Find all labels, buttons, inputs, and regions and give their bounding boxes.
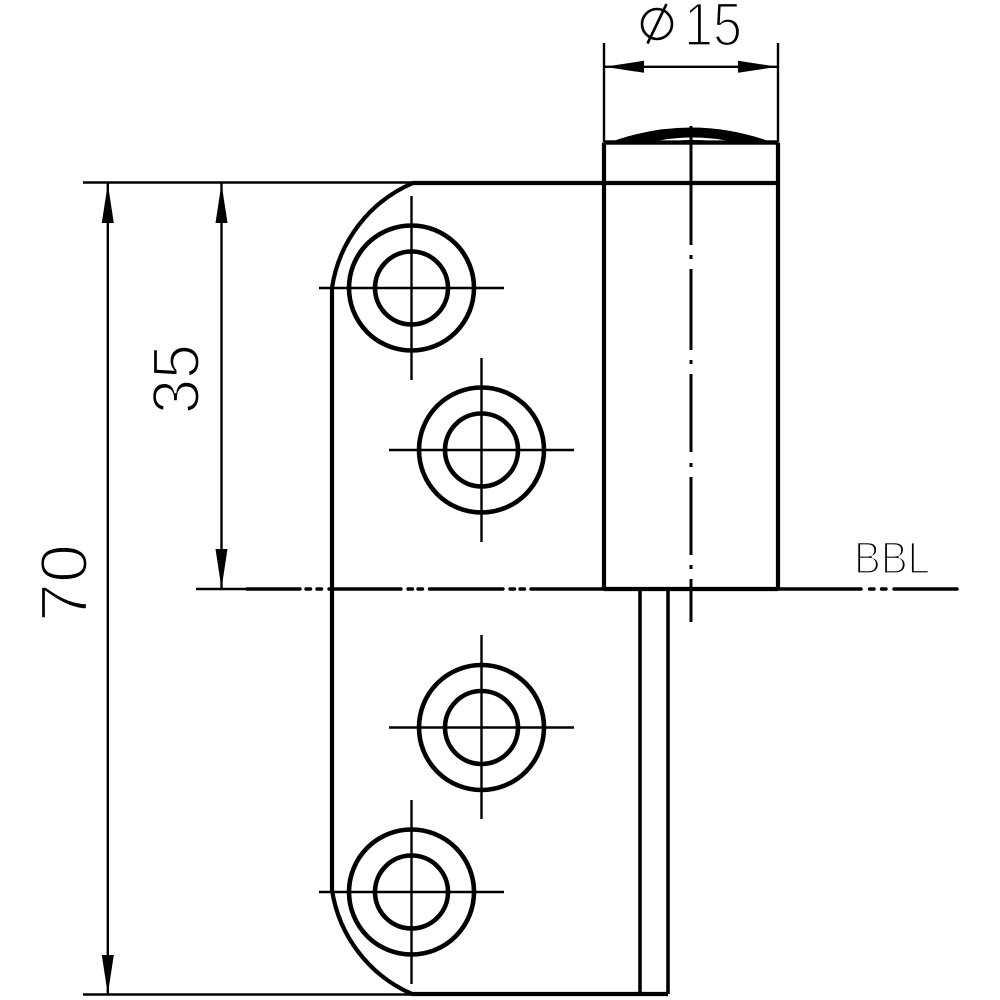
hole H2 crosshair: [389, 358, 574, 542]
top extension line (70/35 datum): [83, 181, 413, 183]
hinge leaf outline (upper+lower leaf): [332, 183, 778, 994]
svg-text:BBL: BBL: [854, 533, 930, 584]
arrow d15 right: [738, 61, 778, 73]
svg-text:70: 70: [27, 544, 102, 622]
hole H1 crosshair: [319, 196, 504, 380]
lower leaf right edge (outer): [666, 589, 670, 994]
svg-text:35: 35: [139, 344, 214, 414]
BBL lead-in extension line: [196, 588, 247, 590]
dimension line 70: [107, 183, 109, 995]
arrow 35 top: [216, 184, 228, 224]
barrel top edge re-stroke: [604, 140, 778, 144]
hole H4 crosshair: [319, 800, 504, 984]
cap white sliver: [660, 139, 725, 142]
vertical pin centerline (dash-dot): [690, 126, 693, 622]
BBL phantom line (dash-dot-dot): [247, 587, 957, 590]
extension line d15 right: [777, 43, 779, 142]
extension line d15 left: [603, 43, 605, 142]
hole H3 crosshair: [389, 635, 574, 819]
diameter symbol: [642, 4, 672, 44]
arrow 70 bottom: [102, 955, 114, 995]
dimension line 35: [220, 183, 222, 589]
svg-text:15: 15: [684, 0, 742, 59]
hole H2 outer circle: [419, 388, 544, 513]
pin end cap dome: [604, 128, 778, 145]
lower leaf bend line (inner vertical): [638, 589, 642, 994]
hole H1 outer circle: [349, 226, 474, 351]
dimension line d15: [605, 66, 778, 68]
hole H4 outer circle: [349, 830, 474, 955]
barrel (knuckle) outline: [604, 143, 778, 590]
arrow d15 left: [605, 61, 645, 73]
hole H4 inner circle: [375, 856, 448, 929]
hole H1 inner circle: [375, 252, 448, 325]
arrow 70 top: [102, 184, 114, 224]
hole H3 inner circle: [445, 691, 518, 764]
bottom extension line (70 datum): [83, 993, 425, 995]
hole H2 inner circle: [445, 414, 518, 487]
hole H3 outer circle: [419, 665, 544, 790]
arrow 35 bottom: [216, 549, 228, 589]
